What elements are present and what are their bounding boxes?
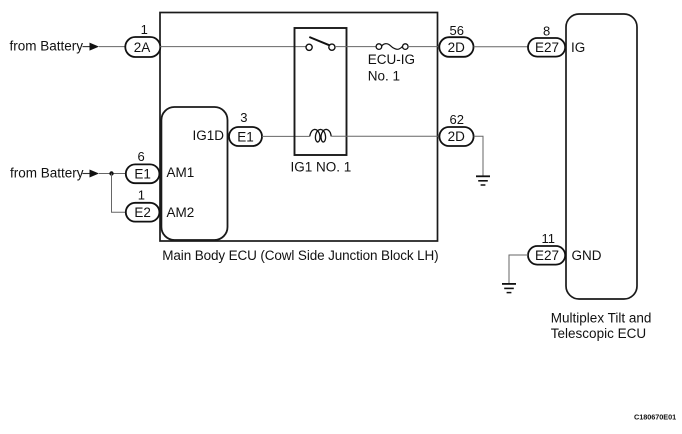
relay switch contacts — [306, 37, 335, 50]
arrow (bottom) — [83, 170, 100, 178]
svg-text:E27: E27 — [535, 40, 559, 55]
Multiplex Tilt and Telescopic ECU box — [566, 14, 637, 299]
wire fuse to 2D(56) — [408, 46, 439, 48]
connector E1 pin 6 — [126, 149, 160, 183]
svg-text:11: 11 — [542, 231, 556, 246]
svg-text:2D: 2D — [448, 129, 466, 144]
svg-text:from Battery: from Battery — [10, 38, 84, 53]
svg-text:AM2: AM2 — [167, 205, 195, 220]
svg-text:ECU-IG: ECU-IG — [368, 52, 415, 67]
svg-text:Multiplex Tilt and: Multiplex Tilt and — [551, 311, 652, 326]
fuse ECU-IG No. 1 — [368, 44, 415, 84]
connector E27 pin 11 — [528, 231, 565, 265]
wire junction down to E2 — [112, 174, 126, 213]
svg-text:2A: 2A — [134, 40, 151, 55]
connector 2D pin 56 — [439, 23, 473, 57]
wire E1 to relay coil — [262, 135, 310, 137]
junction node — [109, 171, 113, 175]
svg-text:No. 1: No. 1 — [368, 68, 400, 83]
connector E1 pin 3 — [229, 110, 262, 146]
arrow (top) — [83, 43, 100, 51]
wire arrow to E1 — [99, 173, 126, 175]
svg-text:Telescopic ECU: Telescopic ECU — [551, 326, 646, 341]
wire 2D(56) to E27(8) — [474, 46, 529, 48]
connector 2A pin 1 — [125, 22, 160, 57]
svg-text:E1: E1 — [237, 129, 254, 144]
IG1D block — [161, 107, 227, 240]
wire 2A to switch — [160, 46, 306, 48]
svg-text:C180670E01: C180670E01 — [634, 413, 676, 422]
relay coil — [310, 129, 331, 142]
svg-text:3: 3 — [240, 110, 247, 125]
svg-text:GND: GND — [572, 248, 602, 263]
connector 2D pin 62 — [439, 112, 473, 146]
wire coil to 2D(62) — [331, 135, 439, 137]
svg-text:IG: IG — [571, 40, 585, 55]
connector E27 pin 8 — [528, 23, 565, 56]
wire from arrow to 2A — [99, 46, 126, 48]
svg-text:2D: 2D — [448, 40, 466, 55]
svg-text:from Battery: from Battery — [10, 166, 84, 181]
svg-text:6: 6 — [138, 149, 145, 164]
svg-text:62: 62 — [450, 112, 464, 127]
svg-text:IG1D: IG1D — [193, 128, 225, 143]
relay IG1 NO. 1 — [291, 28, 352, 175]
wire E27(11) to ground — [509, 255, 528, 284]
svg-text:56: 56 — [450, 23, 464, 38]
ground (E27 11) — [502, 284, 516, 293]
svg-text:Main Body ECU (Cowl Side Junct: Main Body ECU (Cowl Side Junction Block … — [162, 248, 438, 263]
svg-text:AM1: AM1 — [167, 165, 195, 180]
svg-text:1: 1 — [141, 22, 148, 37]
svg-text:E27: E27 — [535, 248, 559, 263]
Main Body ECU box — [160, 13, 438, 242]
svg-text:IG1 NO. 1: IG1 NO. 1 — [291, 160, 352, 175]
svg-text:E2: E2 — [134, 205, 151, 220]
wire switch to fuse — [335, 46, 376, 48]
ground (2D 62) — [476, 176, 490, 185]
svg-text:8: 8 — [543, 23, 550, 38]
connector E2 pin 1 — [126, 187, 160, 221]
wire 2D(62) to ground — [474, 136, 483, 176]
svg-text:E1: E1 — [134, 167, 151, 182]
svg-text:1: 1 — [138, 187, 145, 202]
